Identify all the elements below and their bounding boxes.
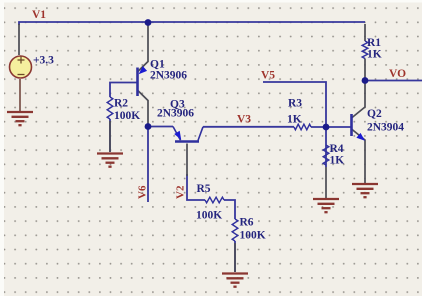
svg-text:100K: 100K: [114, 110, 140, 122]
svg-text:100K: 100K: [240, 230, 266, 242]
svg-text:+3.3: +3.3: [33, 55, 54, 67]
svg-text:100K: 100K: [196, 210, 222, 222]
svg-text:2N3906: 2N3906: [157, 108, 194, 120]
svg-text:V5: V5: [261, 70, 275, 82]
svg-text:1K: 1K: [330, 155, 345, 167]
svg-text:V1: V1: [32, 9, 46, 21]
svg-text:R1: R1: [367, 37, 381, 49]
svg-text:1K: 1K: [367, 49, 382, 61]
svg-text:R3: R3: [288, 98, 302, 110]
svg-text:1K: 1K: [287, 114, 302, 126]
svg-text:V6: V6: [137, 185, 149, 199]
svg-text:R4: R4: [330, 143, 344, 155]
svg-text:VO: VO: [389, 68, 406, 80]
svg-text:V2: V2: [175, 185, 187, 199]
svg-text:2N3906: 2N3906: [150, 70, 187, 82]
svg-text:2N3904: 2N3904: [367, 122, 404, 134]
svg-text:R2: R2: [114, 98, 128, 110]
svg-text:R5: R5: [197, 183, 211, 195]
svg-text:V3: V3: [237, 114, 251, 126]
svg-text:Q2: Q2: [367, 108, 382, 120]
svg-text:R6: R6: [240, 217, 254, 229]
